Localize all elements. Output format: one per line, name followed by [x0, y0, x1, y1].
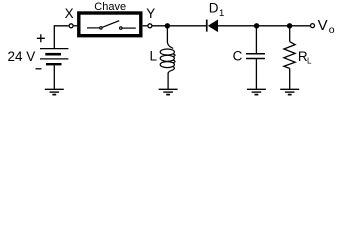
svg-text:C: C [233, 49, 243, 64]
wire junction to inductor [166, 26, 168, 43]
battery minus sign [36, 68, 42, 70]
ground under battery [45, 89, 64, 94]
wire diode to output terminal [218, 25, 310, 27]
svg-text:V: V [318, 17, 328, 34]
inductor L coil [160, 42, 175, 74]
battery 24V plate long top [40, 48, 68, 50]
wire switch box to node Y [143, 25, 148, 27]
svg-text:Y: Y [146, 6, 155, 21]
svg-text:L: L [307, 57, 312, 66]
junction dot at load resistor branch [287, 23, 292, 28]
switch left lead [87, 27, 99, 29]
switch left contact circle [100, 27, 102, 29]
output terminal circle Vo [311, 24, 315, 28]
battery thick short plate 2 [46, 63, 62, 65]
ground under inductor [159, 89, 178, 94]
resistor RL zigzag [284, 42, 295, 69]
capacitor C top plate [246, 53, 265, 55]
battery plus sign [37, 34, 45, 42]
svg-text:L: L [150, 48, 158, 63]
wire battery positive to node X [54, 26, 68, 49]
switch box (Chave) [79, 13, 141, 36]
battery plate long 2 [40, 58, 68, 60]
wire junction to load resistor [289, 26, 291, 42]
wire resistor to ground [289, 68, 291, 88]
diode D1 triangle [208, 20, 218, 33]
ground under load resistor [280, 89, 299, 94]
capacitor C bottom plate [246, 58, 265, 60]
wire battery negative to ground [53, 65, 55, 88]
switch right contact circle [120, 27, 122, 29]
junction dot at inductor branch [165, 23, 170, 28]
battery thick short plate 1 [45, 53, 61, 56]
ground under capacitor [247, 89, 266, 94]
svg-text:D: D [209, 1, 219, 16]
wire junction to capacitor [255, 26, 257, 53]
switch arm (open) [102, 21, 119, 28]
wire node Y to diode [152, 25, 206, 27]
svg-text:24 V: 24 V [8, 49, 36, 64]
switch right lead [122, 27, 135, 29]
diode D1 cathode bar [206, 20, 208, 32]
node Y terminal circle [148, 24, 152, 28]
wire capacitor to ground [255, 59, 257, 89]
svg-text:o: o [329, 24, 335, 36]
node X terminal circle [69, 24, 73, 28]
svg-text:X: X [65, 6, 74, 21]
svg-text:Chave: Chave [94, 1, 126, 13]
svg-text:1: 1 [219, 8, 224, 19]
wire inductor to ground [167, 73, 169, 89]
wire node X to switch box [74, 25, 79, 27]
junction dot at capacitor branch [254, 23, 259, 28]
